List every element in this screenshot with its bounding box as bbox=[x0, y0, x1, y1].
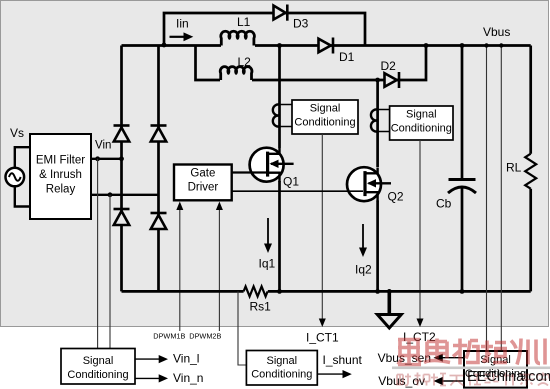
MOSFET Q1 bbox=[250, 148, 294, 182]
svg-text:DPWM2B: DPWM2B bbox=[189, 332, 221, 341]
wire: Vbus_ov sense line bbox=[500, 46, 502, 352]
svg-text:Q1: Q1 bbox=[283, 175, 299, 189]
wire: I_shunt sense line bbox=[238, 291, 246, 365]
wire: left bridge leg x=121.5 bbox=[120, 46, 123, 292]
wire: Vin line lower bbox=[91, 194, 159, 196]
CT1 secondary stubs bbox=[281, 105, 293, 127]
node Vin_n sense tap bbox=[108, 192, 113, 197]
diode bridge bottom-left bbox=[114, 209, 130, 225]
wire: DPWM1B line bbox=[179, 208, 181, 332]
svg-text:Iq2: Iq2 bbox=[355, 263, 372, 277]
svg-text:I_shunt: I_shunt bbox=[323, 353, 363, 367]
signal conditioning box Vbus bbox=[464, 351, 527, 388]
svg-text:D2: D2 bbox=[381, 59, 397, 73]
svg-text:RL: RL bbox=[506, 161, 522, 175]
wire: Q1 drain line bbox=[278, 46, 281, 149]
svg-text:D1: D1 bbox=[339, 50, 355, 64]
Gate Driver box bbox=[174, 165, 232, 201]
watermark big text bbox=[398, 339, 545, 365]
svg-text:Q2: Q2 bbox=[388, 190, 404, 204]
svg-text:EEChina.com: EEChina.com bbox=[467, 369, 550, 385]
svg-text:& Inrush: & Inrush bbox=[39, 169, 82, 181]
ground symbol bbox=[387, 291, 391, 314]
signal conditioning box CT2 bbox=[390, 106, 453, 140]
signal conditioning box CT1 bbox=[292, 100, 358, 134]
signal conditioning box I_shunt bbox=[246, 351, 317, 386]
svg-text:Cb: Cb bbox=[436, 197, 452, 211]
wire: DPWM2B line bbox=[218, 208, 220, 332]
svg-text:Signal: Signal bbox=[406, 108, 437, 120]
svg-text:Signal: Signal bbox=[310, 102, 341, 114]
svg-text:Conditioning: Conditioning bbox=[391, 122, 452, 134]
wire: I_CT2 sense line bbox=[419, 140, 421, 321]
node Q2 source on rail bbox=[375, 289, 380, 294]
wire: bottom rail bbox=[122, 290, 531, 293]
svg-text:Iin: Iin bbox=[176, 17, 189, 31]
svg-text:Vin_n: Vin_n bbox=[173, 371, 203, 385]
CT2 secondary stubs bbox=[379, 110, 390, 132]
svg-text:Signal: Signal bbox=[83, 355, 114, 367]
svg-text:Relay: Relay bbox=[46, 184, 76, 196]
watermark underline bbox=[392, 367, 550, 370]
node Vin upper to bridge bbox=[119, 156, 124, 161]
diode D3 bbox=[274, 5, 288, 21]
svg-text:Vs: Vs bbox=[10, 126, 24, 140]
wire: gate line Q1 bbox=[232, 171, 266, 173]
arrow Vin_l bbox=[135, 358, 160, 360]
arrow Iq1 bbox=[267, 218, 269, 246]
MOSFET Q2 bbox=[347, 167, 391, 201]
wire: top input node rail y=45.5 bbox=[122, 44, 531, 47]
wire: Vin line upper bbox=[91, 158, 122, 160]
svg-text:Rs1: Rs1 bbox=[250, 300, 272, 314]
svg-text:Vin_l: Vin_l bbox=[173, 352, 199, 366]
diode bridge bottom-right bbox=[151, 213, 167, 229]
watermark small text bbox=[397, 373, 549, 386]
wire: source to EMI box bbox=[15, 147, 30, 206]
diode bridge top-right bbox=[151, 126, 167, 142]
svg-text:Gate: Gate bbox=[190, 168, 215, 180]
svg-text:Vbus: Vbus bbox=[483, 25, 510, 39]
resistor RL bbox=[529, 46, 532, 154]
EMI Filter box bbox=[30, 134, 91, 219]
current transformer CT2 loops bbox=[371, 109, 378, 131]
svg-text:D3: D3 bbox=[293, 17, 309, 31]
wire: Q2 drain line bbox=[376, 80, 379, 167]
svg-text:I_CT1: I_CT1 bbox=[306, 331, 339, 345]
svg-text:Vin: Vin bbox=[95, 140, 111, 152]
wire: right bridge leg x=158.5 bbox=[157, 46, 160, 292]
arrow Iq2 bbox=[362, 224, 364, 250]
wire: Q2 source line bbox=[376, 201, 379, 292]
svg-text:Iq1: Iq1 bbox=[259, 257, 276, 271]
diode D1 bbox=[319, 38, 334, 54]
svg-text:DPWM1B: DPWM1B bbox=[153, 332, 185, 341]
wire: D3 branch riser and top run bbox=[164, 13, 365, 46]
arrow Vbus_ov bbox=[441, 380, 464, 382]
node D2 to bus bbox=[424, 43, 429, 48]
wire: I_CT1 sense line bbox=[321, 134, 323, 321]
svg-text:L1: L1 bbox=[237, 15, 251, 29]
arrow Vin_n bbox=[135, 377, 160, 379]
svg-text:Conditioning: Conditioning bbox=[67, 369, 128, 381]
svg-text:Conditioning: Conditioning bbox=[294, 116, 355, 128]
wire: Vin_n sense line bbox=[109, 195, 111, 349]
svg-text:L2: L2 bbox=[238, 55, 252, 69]
inductor L2 bbox=[220, 67, 252, 80]
svg-text:Conditioning: Conditioning bbox=[251, 369, 312, 381]
signal conditioning box Vin bbox=[61, 349, 135, 385]
node ground on rail bbox=[387, 289, 392, 294]
wire: Vin_l sense line bbox=[97, 159, 99, 349]
diode bridge top-left bbox=[114, 126, 130, 142]
AC source Vs bbox=[6, 168, 25, 187]
svg-text:Driver: Driver bbox=[188, 182, 219, 194]
node L2/Q2 junction bbox=[375, 78, 380, 83]
arrow Iin bbox=[170, 36, 186, 38]
inductor L1 bbox=[221, 31, 255, 45]
resistor Rs1 bbox=[244, 286, 268, 296]
current transformer CT1 loops bbox=[273, 104, 280, 126]
wire: Q1 source line bbox=[278, 181, 281, 291]
arrow I_shunt bbox=[317, 373, 344, 375]
wire: L2 branch drop and run bbox=[196, 46, 427, 81]
svg-text:EMI Filter: EMI Filter bbox=[36, 155, 85, 167]
wire: Vbus_sen sense line bbox=[486, 46, 488, 352]
diode D2 bbox=[385, 72, 400, 88]
node Cb on rail bbox=[460, 289, 465, 294]
node Vin_l sense tap bbox=[95, 156, 100, 161]
capacitor Cb bbox=[461, 46, 464, 180]
node Q1 source on rail bbox=[277, 289, 282, 294]
node dot at D3 branch bbox=[162, 43, 167, 48]
svg-text:Signal: Signal bbox=[267, 355, 298, 367]
wire: gate line Q2 bbox=[232, 190, 363, 192]
arrow Vbus_sen bbox=[441, 357, 464, 359]
